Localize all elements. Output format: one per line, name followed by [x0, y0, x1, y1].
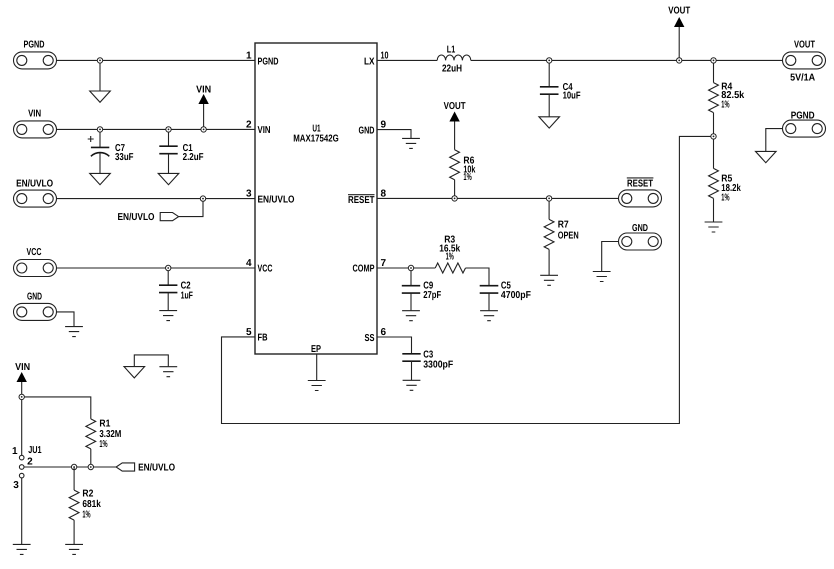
svg-text:RESET: RESET: [627, 178, 653, 189]
svg-text:VOUT: VOUT: [794, 39, 815, 50]
svg-text:1%: 1%: [721, 193, 729, 204]
ground (analog triangle) under PGND node: [90, 91, 111, 102]
svg-text:VIN: VIN: [15, 362, 30, 373]
svg-text:1uF: 1uF: [181, 291, 193, 302]
svg-text:EN/UVLO: EN/UVLO: [16, 179, 53, 190]
node C9 on COMP line: [408, 265, 413, 270]
svg-text:1%: 1%: [99, 439, 107, 450]
resistor R4 82.5k: [709, 60, 745, 136]
svg-text:VOUT: VOUT: [444, 101, 466, 112]
resistor R1 3.32M: [86, 418, 122, 467]
svg-text:EP: EP: [311, 344, 321, 355]
svg-text:MAX17542G: MAX17542G: [293, 134, 339, 145]
node R7 on RESET line: [546, 196, 551, 201]
node VOUT flag on LX line: [677, 58, 682, 63]
svg-text:1%: 1%: [446, 251, 454, 262]
node C2 on VCC line: [166, 265, 171, 270]
inductor L1 22uH: [437, 45, 471, 75]
resistor R5 18.2k: [709, 136, 742, 221]
U1 pin 8 name RESET (active low): [348, 195, 375, 206]
wire pin9 GND: [377, 130, 411, 139]
node C7 on VIN line: [97, 127, 102, 132]
svg-text:PGND: PGND: [24, 40, 45, 51]
connector J RESET (active low): [619, 178, 662, 207]
wire VIN node down to JU1 pin1: [21, 397, 23, 455]
ground under R7: [540, 275, 558, 285]
wire pin7 COMP line: [377, 268, 489, 286]
svg-text:681k: 681k: [82, 499, 101, 510]
capacitor C7 33uF (polarized): [88, 129, 134, 173]
ground (analog triangle) PGND right: [756, 151, 777, 162]
ground under C3: [403, 380, 421, 390]
wire pin3 EN/UVLO: [57, 198, 256, 200]
connector J VIN (left): [14, 109, 57, 138]
svg-text:PGND: PGND: [791, 111, 815, 122]
node PGND line: [97, 58, 102, 63]
svg-text:7: 7: [381, 258, 387, 269]
capacitor C2 1uF: [159, 268, 193, 310]
svg-text:LX: LX: [364, 57, 375, 68]
wire pin2 VIN: [57, 128, 256, 130]
node R2 junction: [71, 464, 76, 469]
svg-text:PGND: PGND: [258, 57, 279, 68]
svg-text:33uF: 33uF: [115, 152, 134, 163]
ground under C9: [402, 311, 420, 321]
capacitor C5 4700pF: [480, 281, 531, 311]
svg-text:VIN: VIN: [258, 125, 271, 136]
svg-text:RESET: RESET: [348, 195, 375, 206]
resistor R3 16.5k (horizontal): [435, 235, 465, 274]
svg-text:SS: SS: [365, 333, 375, 344]
node R4 top on LX line: [711, 58, 716, 63]
svg-text:4: 4: [246, 258, 252, 269]
ground under JU1 pin3: [13, 544, 31, 554]
net tag EN/UVLO (bottom): [116, 463, 175, 474]
connector J PGND (top left): [14, 40, 57, 69]
svg-text:10: 10: [381, 51, 389, 62]
wire PGND drop to ground: [99, 60, 101, 90]
svg-text:COMP: COMP: [353, 264, 375, 275]
node VIN bottom: [19, 394, 24, 399]
svg-text:2.2uF: 2.2uF: [183, 152, 204, 163]
wire JU1 pin3 to ground: [21, 478, 23, 544]
wire VIN node to R1 top: [22, 397, 91, 419]
wire pin4 VCC: [57, 267, 256, 269]
svg-text:FB: FB: [258, 333, 268, 344]
wire FB feedback loop pin5 to divider: [222, 136, 714, 423]
node C4 on LX line: [547, 58, 552, 63]
ground under R5: [705, 222, 723, 232]
net tag EN/UVLO (mid): [118, 199, 204, 224]
svg-text:VCC: VCC: [27, 247, 42, 258]
connector J GND (left): [14, 292, 57, 321]
svg-text:1%: 1%: [721, 99, 729, 110]
svg-text:VIN: VIN: [28, 109, 41, 120]
U1 pad EP: [308, 344, 326, 391]
ground under R2: [65, 544, 83, 554]
ground (analog triangle) under C1: [158, 173, 179, 184]
svg-text:R7: R7: [558, 220, 569, 231]
node R1 junction: [88, 464, 93, 469]
capacitor C9 27pF: [402, 268, 441, 310]
jumper JU1: [12, 445, 42, 491]
power flag VOUT (top): [668, 6, 690, 61]
svg-text:VOUT: VOUT: [668, 6, 690, 17]
svg-text:3: 3: [13, 480, 19, 491]
svg-text:1%: 1%: [463, 172, 471, 183]
ground (analog triangle) under C4: [539, 117, 560, 128]
svg-text:3: 3: [246, 189, 252, 200]
connector J VCC (left): [14, 247, 57, 277]
svg-text:GND: GND: [27, 292, 42, 303]
capacitor C4 10uF: [540, 60, 581, 116]
wire pin6 SS: [377, 337, 412, 354]
ground pin9: [402, 138, 420, 148]
resistor R2 681k: [69, 467, 101, 544]
svg-text:EN/UVLO: EN/UVLO: [258, 195, 295, 206]
svg-text:27pF: 27pF: [423, 290, 441, 301]
svg-text:4700pF: 4700pF: [501, 290, 531, 301]
wire JU1 pin2 to EN/UVLO tag: [24, 466, 116, 468]
resistor R7 OPEN: [544, 198, 579, 275]
svg-text:R2: R2: [82, 488, 93, 499]
svg-text:6: 6: [381, 327, 387, 338]
svg-text:GND: GND: [359, 125, 375, 136]
ground under GND right: [593, 272, 611, 282]
resistor R6 10k: [450, 150, 476, 199]
wire GND connector to ground: [57, 312, 75, 326]
connector J PGND (right): [783, 111, 826, 138]
node VIN arrow on VIN line: [201, 127, 206, 132]
svg-text:10uF: 10uF: [563, 90, 581, 101]
node C1 on VIN line: [166, 127, 171, 132]
ground tie (triangle to bar): [124, 355, 177, 378]
svg-text:2: 2: [27, 457, 33, 468]
wire pin8 RESET line: [377, 197, 618, 199]
svg-text:1: 1: [246, 51, 252, 62]
power flag VIN (above pin 2): [196, 85, 211, 130]
ground under C2: [159, 311, 177, 321]
svg-text:1: 1: [12, 446, 18, 457]
ground under GND connector: [65, 327, 83, 337]
wire GND right connector to ground: [602, 242, 619, 272]
wire PGND right to ground: [766, 129, 783, 152]
svg-text:R1: R1: [99, 418, 110, 429]
svg-text:VIN: VIN: [196, 85, 211, 96]
connector J GND (right): [619, 223, 662, 250]
connector J VOUT (right): [783, 39, 826, 83]
svg-text:5V/1A: 5V/1A: [790, 72, 815, 83]
svg-text:VCC: VCC: [258, 264, 273, 275]
svg-text:OPEN: OPEN: [558, 230, 579, 241]
svg-text:3300pF: 3300pF: [423, 359, 453, 370]
svg-text:9: 9: [381, 120, 387, 131]
connector J EN/UVLO (left): [14, 179, 57, 208]
IC U1 MAX17542G body: [255, 43, 377, 354]
wire pin1 PGND: [57, 59, 256, 61]
ground under C5: [480, 311, 498, 321]
power flag VIN (bottom left): [15, 362, 30, 397]
svg-text:EN/UVLO: EN/UVLO: [138, 463, 175, 474]
svg-text:EN/UVLO: EN/UVLO: [118, 212, 155, 223]
node divider junction R4/R5: [711, 134, 716, 139]
svg-text:GND: GND: [632, 223, 648, 234]
svg-text:1%: 1%: [82, 510, 90, 521]
wire pin10 LX output line: [377, 59, 783, 61]
node EN/UVLO line: [200, 196, 205, 201]
node R6 on RESET line: [452, 196, 457, 201]
svg-text:L1: L1: [447, 45, 456, 56]
power flag VOUT above R6: [444, 101, 466, 150]
svg-text:2: 2: [246, 119, 252, 130]
svg-text:JU1: JU1: [28, 445, 42, 456]
capacitor C3 3300pF: [402, 350, 453, 380]
capacitor C1 2.2uF: [159, 129, 203, 173]
ground (analog triangle) under C7: [90, 173, 111, 184]
svg-text:22uH: 22uH: [442, 64, 462, 75]
